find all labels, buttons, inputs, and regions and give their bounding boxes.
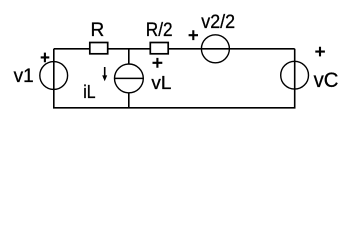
plus sign of vL xyxy=(153,58,163,68)
current source iL bar xyxy=(115,77,144,79)
svg-text:v1: v1 xyxy=(14,66,34,87)
voltage source v2/2 xyxy=(201,35,229,63)
plus sign of v2/2 xyxy=(189,30,198,40)
wire middle branch lower stub xyxy=(128,93,130,108)
voltage source v1 xyxy=(40,62,68,90)
resistor R/2 box xyxy=(150,43,168,54)
svg-text:vC: vC xyxy=(314,68,339,92)
svg-text:iL: iL xyxy=(83,81,95,102)
wire left+bottom+right loop xyxy=(54,49,295,108)
svg-text:R: R xyxy=(91,20,105,41)
svg-text:vL: vL xyxy=(151,73,171,93)
svg-text:R/2: R/2 xyxy=(146,20,173,41)
voltage source vC xyxy=(281,61,309,89)
plus sign of v1 xyxy=(41,53,50,63)
plus sign of vC xyxy=(315,47,325,57)
wire middle branch upper stub xyxy=(128,49,130,64)
wire top segment left (v1 corner to R) xyxy=(54,48,89,50)
svg-text:v2/2: v2/2 xyxy=(201,12,235,33)
wire top segment R/2 to right corner (through v2/2) xyxy=(169,48,295,50)
wire top segment between R and R/2 xyxy=(109,48,150,50)
current source iL circle xyxy=(114,64,143,93)
arrow iL (current direction) xyxy=(104,67,106,76)
resistor R box xyxy=(90,43,108,54)
